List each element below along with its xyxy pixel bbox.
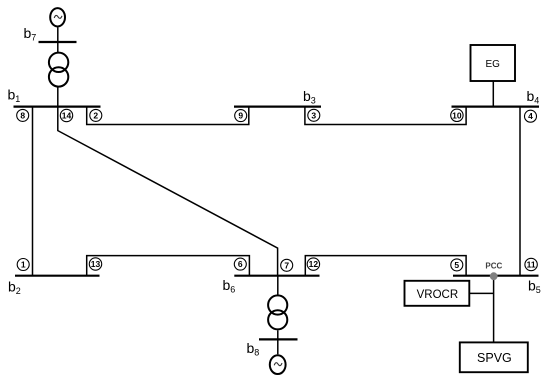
svg-text:5: 5 [454, 260, 459, 270]
svg-text:2: 2 [93, 110, 98, 120]
wire G7 to bus b7 [57, 28, 59, 43]
bus b4 [452, 105, 540, 107]
node 9 [235, 110, 247, 122]
wire line 4-11 (bus b4 to bus b5) [519, 107, 521, 276]
svg-text:14: 14 [62, 111, 72, 121]
svg-text:1: 1 [21, 260, 26, 270]
bus b3 [234, 105, 321, 107]
svg-text:PCC: PCC [485, 262, 502, 271]
wire bus b7 to transformer T1 [57, 42, 59, 52]
node 5 [451, 259, 463, 271]
node 4 [525, 110, 537, 122]
wire line 13-6 (bus b2 to bus b6) [87, 256, 250, 276]
bus b2 [15, 275, 100, 277]
node PCC dot [490, 272, 498, 280]
wire line 3-10 (bus b3 to bus b4) [305, 107, 466, 125]
bus b5 [453, 275, 539, 277]
bus b6 [234, 275, 319, 277]
wire EG to bus b4 [492, 81, 494, 107]
node 2 [90, 109, 102, 121]
wire VROCR to PCC line [469, 292, 493, 294]
wire line 12-5 (bus b6 to bus b5) [305, 256, 466, 276]
node 13 [89, 258, 101, 270]
wire transformer T1 to bus b1 [57, 88, 59, 108]
transformer T1 [49, 53, 68, 87]
svg-text:11: 11 [527, 260, 536, 270]
SPVG box [460, 342, 528, 372]
node 7 [281, 259, 293, 271]
svg-text:6: 6 [238, 259, 243, 269]
node 8 [17, 109, 29, 121]
node 14 [60, 109, 72, 121]
svg-text:13: 13 [91, 259, 101, 269]
svg-text:3: 3 [311, 110, 316, 120]
EG box [471, 45, 516, 81]
svg-text:EG: EG [485, 59, 500, 70]
bus b1 [14, 105, 101, 107]
svg-text:4: 4 [528, 111, 533, 121]
svg-text:10: 10 [452, 110, 462, 120]
wire transformer T2 to bus b8 [277, 330, 279, 339]
bus b7 [39, 41, 77, 43]
node 10 [451, 109, 463, 121]
generator G8 [270, 355, 286, 374]
VROCR box [405, 281, 470, 306]
svg-text:9: 9 [238, 111, 243, 121]
node 6 [234, 258, 246, 270]
svg-text:12: 12 [309, 259, 319, 269]
node 11 [525, 258, 537, 270]
wire bus b6 to transformer T2 [277, 276, 279, 295]
node 12 [307, 258, 319, 270]
wire PCC to SPVG [493, 276, 495, 342]
svg-text:8: 8 [20, 110, 25, 120]
wire line 14-7 diagonal (bus b1 to bus b6) [58, 107, 278, 276]
svg-text:VROCR: VROCR [417, 289, 459, 301]
node 1 [17, 259, 29, 271]
transformer T2 [268, 295, 287, 329]
wire line 2-9 (bus b1 to bus b3) [87, 107, 249, 125]
wire line 8-1 (bus b1 to bus b2) [32, 107, 34, 276]
node 3 [308, 109, 320, 121]
svg-text:7: 7 [284, 260, 289, 270]
generator G7 [50, 8, 65, 26]
wire bus b8 to generator G8 [277, 340, 279, 355]
svg-text:SPVG: SPVG [477, 351, 512, 365]
bus b8 [259, 338, 298, 340]
